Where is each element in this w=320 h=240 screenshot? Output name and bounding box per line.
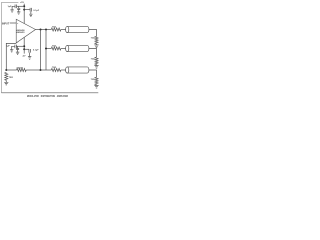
svg-text:1µF: 1µF (8, 6, 12, 8)
ground under C6 (28, 57, 31, 60)
wire C6 to ground (29, 53, 31, 57)
svg-text:+: + (17, 23, 19, 25)
border frame left (0, 2, 2, 92)
capacitor C3 0.1uF plates (30, 8, 32, 12)
resistor RG vertical zigzag (5, 73, 8, 81)
svg-text:75Ω: 75Ω (52, 26, 56, 28)
node dot feedback node (5, 69, 7, 71)
wire J1 output to load (89, 30, 97, 37)
wire RF to output bus (26, 69, 40, 71)
svg-text:−: − (17, 42, 19, 44)
svg-text:+5V: +5V (20, 2, 24, 4)
capacitor C6 0.1uF plates (29, 49, 31, 53)
resistor RF 300ohm zigzag (17, 68, 27, 71)
node dot output bus row2 (45, 29, 47, 31)
capacitor C1 1uF plates (15, 5, 16, 9)
ground under C2 (17, 12, 20, 14)
ground under C3 (29, 14, 32, 16)
resistor R1 75ohm zigzag row1 (51, 28, 61, 31)
wire feedback node to RF (6, 69, 16, 71)
svg-text:DISTRIBUTION: DISTRIBUTION (41, 94, 55, 98)
svg-text:MODULATOR: MODULATOR (27, 94, 39, 98)
wire R1 to connector J1 (61, 29, 66, 31)
ground row3 load (94, 85, 98, 88)
wire -V to C6 (24, 48, 29, 50)
wire op-amp output (36, 29, 52, 31)
resistor R3 75ohm zigzag row2 (51, 47, 61, 50)
resistor R6 75ohm load row3 (95, 77, 98, 84)
wire R5 to connector J3 (61, 69, 66, 71)
op-amp U1 triangle (16, 19, 35, 43)
svg-text:75Ω: 75Ω (52, 67, 56, 69)
svg-text:-5V: -5V (22, 56, 26, 58)
svg-text:0.1µF: 0.1µF (33, 50, 39, 52)
wire -V rail (23, 37, 25, 53)
wire row3 to resistor (41, 69, 52, 71)
capacitor C4 1uF plates (15, 45, 17, 49)
svg-text:0.1µF: 0.1µF (33, 10, 39, 12)
wire +V to C3 (24, 9, 30, 11)
svg-text:75Ω: 75Ω (91, 59, 95, 61)
ground row2 load (94, 66, 98, 69)
node dot -V cap4 junction (23, 45, 25, 47)
wire J3 output to load (89, 70, 97, 77)
node dot output bus row3 (40, 29, 42, 31)
wire R4 to ground (96, 64, 98, 67)
svg-text:75Ω: 75Ω (91, 79, 95, 81)
wire -V to C4 (16, 45, 24, 47)
wire bus drop to row3 (40, 30, 42, 71)
connector J3 coax cylinder (67, 67, 89, 73)
svg-text:75Ω: 75Ω (9, 77, 13, 79)
wire +V to C1 (17, 5, 25, 7)
wire RG to ground (5, 80, 7, 82)
svg-text:MAX4451: MAX4451 (16, 31, 25, 34)
wire C1 to ground (12, 6, 15, 10)
resistor R4 75ohm load row2 (95, 57, 98, 64)
svg-text:AMPLIFIER: AMPLIFIER (57, 94, 69, 98)
wire R6 to ground (96, 84, 98, 87)
node dot rail-cap1 junction (23, 5, 25, 7)
wire op-amp inverting input (6, 43, 16, 70)
node dot rail-cap3 junction (23, 9, 25, 11)
connector J2 coax cylinder (67, 45, 89, 51)
svg-text:75Ω: 75Ω (52, 45, 56, 47)
capacitor C2 hanging plates (17, 6, 20, 12)
resistor R5 75ohm zigzag row3 (51, 68, 61, 71)
connector J1 coax cylinder (67, 26, 89, 32)
resistor R2 75ohm load row1 (95, 36, 98, 43)
wire C3 to ground (30, 12, 32, 15)
svg-text:75Ω: 75Ω (91, 37, 95, 39)
wire C4 to ground (12, 46, 15, 49)
border frame top-left segment (1, 1, 18, 3)
ground under C4 (10, 50, 13, 52)
wire R3 to connector J2 (61, 48, 66, 50)
border frame bottom (1, 92, 98, 94)
svg-text:300Ω: 300Ω (16, 68, 23, 70)
node dot -V cap6 junction (23, 48, 25, 50)
wire +V rail (23, 4, 25, 24)
wire input to op-amp (10, 22, 16, 24)
ground under C1 (10, 10, 13, 12)
node dot row2 junction (45, 48, 47, 50)
ground row1 load (94, 45, 98, 48)
ground under C5 (16, 52, 19, 54)
node dot row3 junction (40, 69, 42, 71)
wire bus drop to row2 and row3 (45, 30, 47, 71)
capacitor C5 hanging plates (16, 46, 19, 52)
wire J2 output to load (89, 49, 97, 58)
ground under RG (4, 82, 8, 85)
wire R2 to ground (96, 44, 98, 45)
svg-text:INPUT: INPUT (2, 21, 10, 25)
